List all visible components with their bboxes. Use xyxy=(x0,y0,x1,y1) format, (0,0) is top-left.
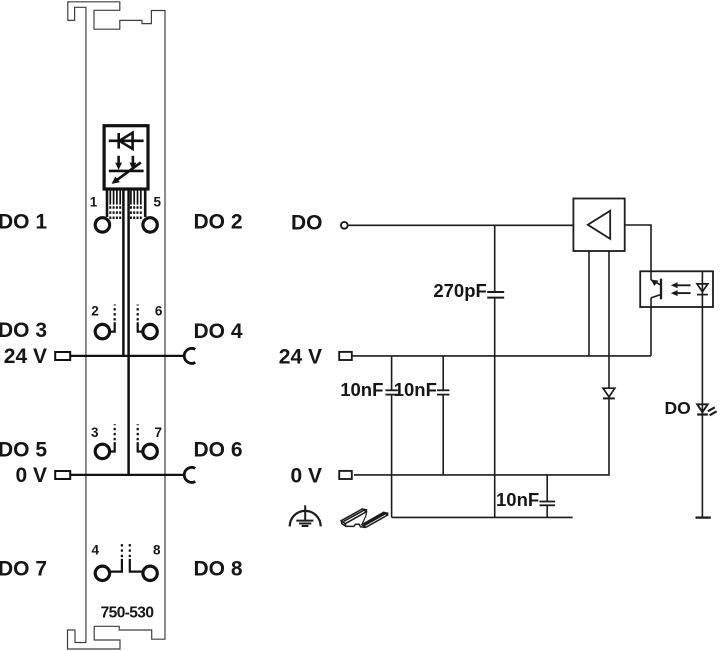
contact 6 hook xyxy=(138,322,143,331)
schematic 0V terminal square xyxy=(339,471,352,479)
svg-text:DO 1: DO 1 xyxy=(0,210,47,233)
svg-text:DO 5: DO 5 xyxy=(0,439,47,462)
U3 light arrows xyxy=(677,285,691,293)
contact 8 hook xyxy=(130,559,143,572)
contact 3 hook xyxy=(110,442,115,451)
ribbon cable from U1 xyxy=(107,190,145,219)
wire U3 LED cathode down xyxy=(701,307,703,518)
schematic 24V terminal square xyxy=(339,352,352,360)
contact 2 circle xyxy=(95,324,109,338)
svg-text:DO 8: DO 8 xyxy=(194,557,243,580)
freewheel diode D1 xyxy=(603,388,615,398)
ground line xyxy=(392,516,573,518)
capacitor C3 10nF wires xyxy=(442,356,444,390)
optocoupler U1 box xyxy=(104,126,148,189)
svg-text:0 V: 0 V xyxy=(290,464,322,487)
svg-text:24 V: 24 V xyxy=(279,345,322,368)
capacitor C1 270pF wires xyxy=(494,225,496,292)
DO wire to amplifier xyxy=(348,224,574,226)
0V module terminal square xyxy=(55,471,70,479)
U3 LED xyxy=(697,271,708,307)
svg-text:DO: DO xyxy=(665,398,691,418)
svg-text:1: 1 xyxy=(90,194,98,209)
DIN rail icon xyxy=(341,509,388,528)
svg-text:4: 4 xyxy=(91,543,99,558)
contact 1 circle xyxy=(95,218,109,232)
svg-text:DO 3: DO 3 xyxy=(0,319,47,342)
0V module socket arc xyxy=(184,467,195,482)
svg-text:DO 4: DO 4 xyxy=(194,320,243,343)
amplifier U2 box xyxy=(573,199,624,252)
svg-text:750-530: 750-530 xyxy=(101,604,154,621)
contact 2 hook xyxy=(110,322,115,331)
0V module internal wire xyxy=(70,474,185,476)
U1 output driver symbol xyxy=(109,156,144,180)
capacitor C1 270pF plates xyxy=(487,292,504,298)
wire D1 to 0V rail xyxy=(354,398,609,475)
capacitor C4 10nF plates xyxy=(540,502,556,506)
wire amplifier output to optocoupler xyxy=(625,225,651,280)
svg-text:DO 7: DO 7 xyxy=(0,557,47,580)
svg-text:DO: DO xyxy=(291,212,323,235)
svg-text:10nF: 10nF xyxy=(340,379,383,400)
amplifier U2 triangle xyxy=(588,211,610,239)
svg-text:DO 6: DO 6 xyxy=(194,439,243,462)
svg-text:8: 8 xyxy=(153,543,161,558)
contact 7 circle xyxy=(143,444,157,458)
svg-text:0 V: 0 V xyxy=(15,464,47,487)
svg-text:3: 3 xyxy=(91,425,99,440)
svg-text:DO 2: DO 2 xyxy=(194,210,243,233)
contact 5 circle xyxy=(143,218,157,232)
contact 3 circle xyxy=(95,444,109,458)
LED DO indicator xyxy=(697,404,716,415)
svg-text:270pF: 270pF xyxy=(433,280,486,301)
24V module socket arc xyxy=(184,348,195,363)
internal bus wire to 0V xyxy=(127,190,130,475)
capacitor C4 10nF wires xyxy=(546,475,548,502)
contact 8 circle xyxy=(143,566,157,580)
contact 6 circle xyxy=(143,324,157,338)
U3 phototransistor xyxy=(651,271,661,307)
optocoupler U3 box xyxy=(640,271,713,307)
contact 4 circle xyxy=(95,566,109,580)
24V module internal wire xyxy=(70,355,185,357)
contact 7 hook xyxy=(138,442,143,451)
svg-text:7: 7 xyxy=(154,425,162,440)
capacitor C3 10nF plates xyxy=(437,390,449,394)
capacitor C2 10nF wires xyxy=(391,356,393,390)
contact 4 hook xyxy=(110,559,122,572)
terminal bar end of LED branch xyxy=(696,516,711,518)
module 750-530 body outline xyxy=(68,2,166,649)
24V module terminal square xyxy=(55,352,70,360)
svg-text:10nF: 10nF xyxy=(394,379,437,400)
earth symbol xyxy=(290,505,321,526)
svg-text:5: 5 xyxy=(153,194,161,209)
svg-text:6: 6 xyxy=(155,304,163,319)
wire U3 emitter to 24V rail end xyxy=(650,307,652,356)
internal bus wire to 24V xyxy=(122,190,125,356)
svg-text:10nF: 10nF xyxy=(496,489,539,510)
capacitor C2 10nF plates xyxy=(385,390,397,394)
svg-text:2: 2 xyxy=(91,304,99,319)
24V rail wire xyxy=(352,355,651,357)
U1 diode symbol xyxy=(109,133,144,149)
wire amplifier pin to diode D1 xyxy=(608,251,610,388)
DO input terminal circle xyxy=(341,222,348,229)
svg-text:24 V: 24 V xyxy=(4,345,47,368)
wire amplifier pin to 24V rail xyxy=(588,251,590,356)
